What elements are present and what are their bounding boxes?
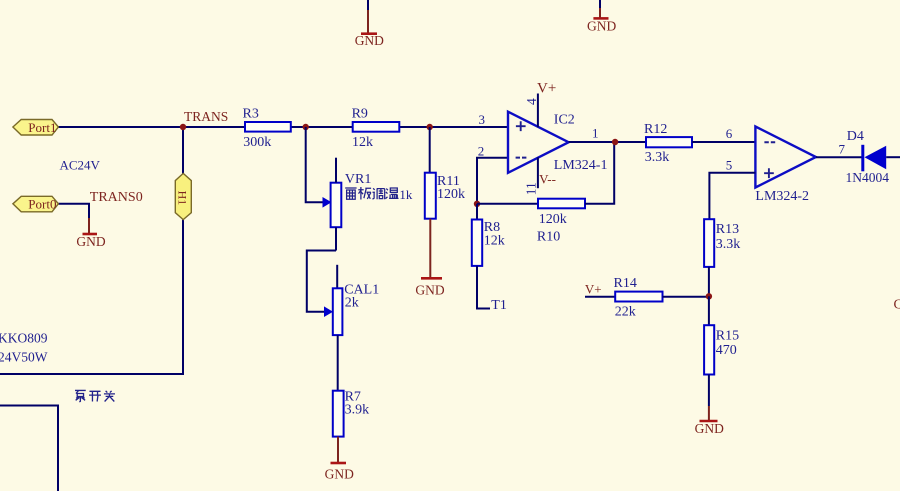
- resistor R12: [644, 122, 692, 165]
- resistor R3: [243, 107, 291, 150]
- wire TRANS vertical upper: [182, 127, 184, 174]
- pin 4 wire: [537, 94, 539, 128]
- wire R9 to op-amp pin 3: [399, 126, 508, 128]
- svg-text:V--: V--: [539, 172, 556, 187]
- svg-text:GND: GND: [355, 33, 384, 48]
- resistor R14: [614, 276, 663, 320]
- label 面板调温1k: [345, 187, 413, 202]
- resistor R15: [704, 325, 739, 374]
- svg-text:GND: GND: [76, 234, 105, 249]
- svg-text:H1: H1: [176, 191, 190, 206]
- svg-text:V+: V+: [585, 281, 602, 296]
- port Port1: [13, 120, 59, 136]
- svg-text:Port0: Port0: [28, 197, 56, 212]
- svg-text:C: C: [894, 298, 900, 313]
- op-amp U2 LM324-2 triangle: [755, 127, 816, 188]
- wire junction to R11: [429, 127, 431, 173]
- svg-text:470: 470: [716, 343, 737, 358]
- svg-text:R14: R14: [614, 276, 637, 291]
- svg-text:3: 3: [479, 112, 486, 127]
- node TRANS junction: [180, 124, 186, 130]
- svg-text:4: 4: [524, 98, 539, 105]
- CAL1 wiper arrow: [324, 306, 333, 317]
- wire junction to R10: [477, 203, 538, 205]
- svg-text:R8: R8: [484, 220, 500, 235]
- svg-text:22k: 22k: [615, 305, 636, 320]
- op-amp plus sign: [516, 121, 526, 131]
- svg-text:GND: GND: [325, 467, 354, 482]
- port Port0: [13, 196, 59, 212]
- pin 11 wire: [537, 157, 539, 188]
- potentiometer VR1: [331, 158, 372, 251]
- op-amp2 plus sign: [764, 168, 774, 178]
- wire junction to R15: [708, 296, 710, 325]
- svg-text:VR1: VR1: [345, 172, 371, 187]
- ground below R15: [695, 375, 724, 437]
- svg-text:R9: R9: [352, 106, 368, 121]
- svg-text:AC24V: AC24V: [60, 158, 101, 173]
- resistor R13: [704, 219, 740, 267]
- svg-text:TRANS: TRANS: [184, 109, 228, 124]
- svg-text:Port1: Port1: [28, 120, 56, 135]
- svg-text:GND: GND: [695, 421, 724, 436]
- wire Port0 to GND: [59, 204, 90, 219]
- wire pin5 net: [709, 173, 755, 219]
- wire bottom horizontal to left edge: [0, 373, 184, 375]
- wire op2 output to D4: [816, 156, 862, 158]
- svg-text:V+: V+: [537, 81, 556, 97]
- wire R14 to junction: [663, 296, 709, 298]
- svg-text:R15: R15: [716, 329, 739, 344]
- ground symbol at Port0: [76, 218, 105, 249]
- wire D4 to right edge: [886, 156, 900, 158]
- ground top left: [355, 0, 384, 48]
- wire output row to R12: [569, 141, 646, 143]
- svg-text:6: 6: [726, 126, 733, 141]
- ground below R7: [325, 437, 354, 482]
- node pin2/R8/R10 junction: [474, 201, 480, 207]
- resistor R8: [472, 220, 505, 266]
- op-amp2 minus sign: [764, 141, 775, 143]
- wire VR1 wiper net: [306, 127, 324, 202]
- resistor R7: [333, 390, 369, 437]
- wire V+ to R14: [585, 296, 615, 298]
- wire TRANS vertical lower: [182, 220, 184, 375]
- resistor R11: [425, 173, 465, 219]
- svg-text:R13: R13: [716, 222, 739, 237]
- potentiometer CAL1: [333, 283, 379, 336]
- node R3/R9 junction: [303, 124, 309, 130]
- svg-text:120k: 120k: [539, 212, 567, 227]
- svg-text:300k: 300k: [243, 135, 271, 150]
- svg-text:3.9k: 3.9k: [345, 403, 370, 418]
- wire R3 to R9: [291, 126, 353, 128]
- svg-text:R3: R3: [243, 107, 259, 122]
- op-amp minus sign: [516, 157, 527, 159]
- ground top middle: [587, 0, 616, 33]
- svg-text:TRANS0: TRANS0: [90, 190, 143, 205]
- VR1 wiper arrow: [323, 197, 332, 208]
- label 泵开关 pump switch: [75, 390, 115, 402]
- resistor R10: [537, 199, 585, 245]
- resistor R9: [352, 106, 400, 150]
- svg-text:R10: R10: [537, 230, 560, 245]
- ground below R11: [415, 219, 444, 298]
- svg-text:3.3k: 3.3k: [645, 150, 670, 165]
- svg-text:R12: R12: [644, 122, 667, 137]
- wire R8 to T1: [477, 266, 490, 309]
- wire CAL1 to R7: [337, 335, 339, 391]
- node output junction: [612, 139, 618, 145]
- svg-text:12k: 12k: [352, 135, 373, 150]
- svg-text:11: 11: [523, 182, 538, 195]
- svg-text:24V50W: 24V50W: [0, 350, 48, 365]
- svg-text:IC2: IC2: [554, 112, 575, 127]
- svg-text:T1: T1: [491, 298, 507, 313]
- wire junction to R8: [476, 204, 478, 220]
- wire pump-switch box corner: [0, 406, 58, 491]
- svg-text:7: 7: [839, 142, 846, 157]
- diode D4: [846, 129, 890, 185]
- svg-text:1k: 1k: [399, 187, 413, 202]
- node R9/R11 junction: [427, 124, 433, 130]
- svg-text:1N4004: 1N4004: [846, 170, 890, 185]
- svg-text:KKO809: KKO809: [0, 331, 48, 346]
- svg-text:12k: 12k: [484, 234, 505, 249]
- wire VR1 bottom to CAL1 wiper: [307, 251, 336, 312]
- svg-text:120k: 120k: [437, 187, 465, 202]
- wire op-amp pin 2 net: [477, 158, 508, 204]
- svg-text:GND: GND: [587, 18, 616, 33]
- svg-text:D4: D4: [847, 129, 864, 144]
- wire R10 to output node: [585, 142, 614, 204]
- op-amp U1 IC2 triangle: [508, 112, 569, 173]
- wire main row from Port1 to R3: [59, 126, 246, 128]
- svg-text:LM324-2: LM324-2: [755, 189, 809, 204]
- svg-text:LM324-1: LM324-1: [554, 158, 608, 173]
- svg-text:2k: 2k: [345, 296, 359, 311]
- svg-text:3.3k: 3.3k: [716, 237, 741, 252]
- wire R12 to op2 pin 6: [692, 141, 755, 143]
- node R13/R14/R15 junction: [706, 293, 712, 299]
- svg-text:GND: GND: [415, 283, 444, 298]
- CAL1 top stub: [336, 265, 338, 289]
- wire R13 to junction: [708, 267, 710, 296]
- svg-text:2: 2: [478, 144, 485, 159]
- component H1: [175, 173, 191, 219]
- svg-text:1: 1: [592, 126, 599, 141]
- svg-text:5: 5: [726, 158, 733, 173]
